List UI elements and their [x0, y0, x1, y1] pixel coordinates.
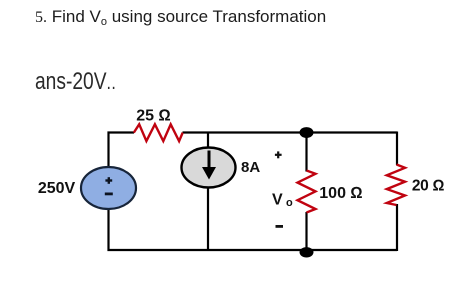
current source I1 8A: [182, 148, 236, 188]
wire current-source branch bottom: [207, 186, 209, 250]
wire right side top: [396, 132, 398, 166]
svg-text:o: o: [286, 197, 293, 209]
wire current-source branch top: [207, 133, 209, 150]
node label Vo minus sign: [276, 225, 284, 228]
wire top-left segment: [109, 133, 135, 168]
resistor R1 25 ohm: [134, 124, 183, 141]
wire top segment from R1 to right corner: [183, 131, 398, 133]
svg-text:25 Ω: 25 Ω: [136, 108, 171, 125]
svg-text:20 Ω: 20 Ω: [412, 178, 445, 195]
wire left bottom segment: [109, 209, 398, 251]
svg-text:250V: 250V: [38, 180, 76, 197]
node A top junction dot: [300, 127, 314, 138]
wire 100-ohm branch top: [305, 133, 307, 172]
svg-text:V: V: [272, 192, 283, 209]
wire right side bottom: [396, 204, 398, 251]
answer text: [35, 68, 116, 96]
wire 100-ohm branch bottom: [305, 212, 307, 250]
node B bottom junction dot: [300, 247, 314, 257]
voltage source V1 250V: [81, 167, 136, 209]
svg-text:8A: 8A: [241, 159, 260, 176]
problem title text: [35, 7, 326, 27]
resistor R3 20 ohm: [387, 165, 405, 206]
resistor R2 100 ohm: [298, 171, 316, 213]
svg-text:100 Ω: 100 Ω: [319, 185, 362, 202]
node label Vo plus sign: [275, 154, 282, 156]
